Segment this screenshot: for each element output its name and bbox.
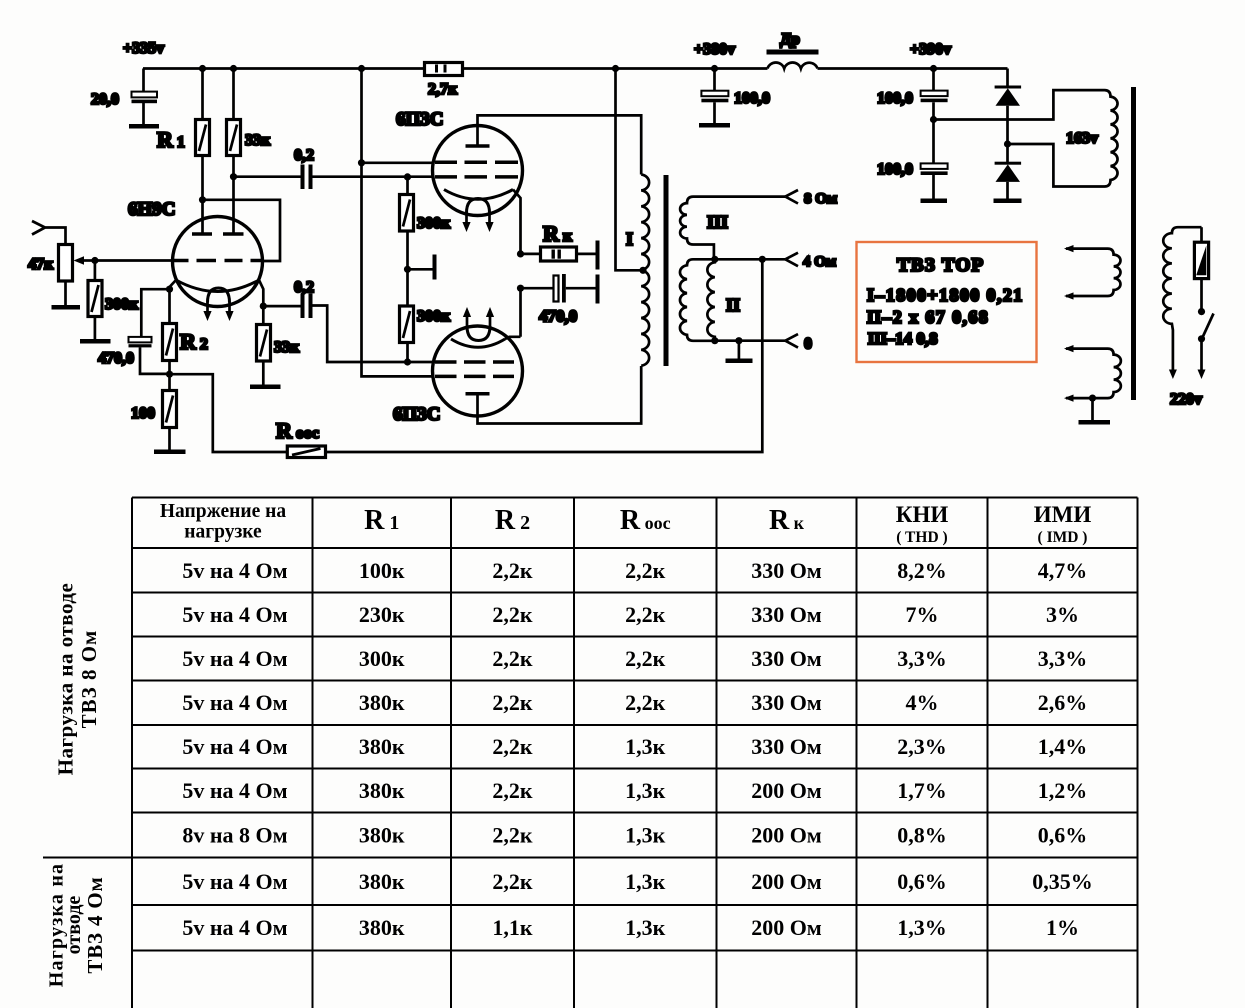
ground (under 100) <box>154 450 186 455</box>
svg-text:КНИ: КНИ <box>896 502 949 527</box>
svg-text:300к: 300к <box>417 215 451 232</box>
svg-text:1,1к: 1,1к <box>492 915 533 940</box>
svg-text:0,2: 0,2 <box>294 147 314 164</box>
svg-text:Напржение на: Напржение на <box>160 501 287 522</box>
svg-text:2,2к: 2,2к <box>625 602 666 627</box>
resistor R2 <box>163 289 208 374</box>
ground (right of Rк, bar) <box>596 241 600 270</box>
svg-text:+335v: +335v <box>123 40 164 57</box>
svg-text:5v на 4 Ом: 5v на 4 Ом <box>182 778 287 803</box>
ground (right of 470,0, bar) <box>596 275 600 304</box>
capacitor 100,0 (upper, +390v) <box>877 69 948 120</box>
capacitor 20,0 <box>91 69 157 125</box>
svg-text:33к: 33к <box>245 132 271 149</box>
resistor 300к (input) <box>88 261 139 340</box>
svg-text:I–1800+1800 0,21: I–1800+1800 0,21 <box>867 285 1024 305</box>
svg-text:5v на 4 Ом: 5v на 4 Ом <box>182 734 287 759</box>
svg-text:1,4%: 1,4% <box>1038 734 1088 759</box>
svg-text:33к: 33к <box>274 339 300 356</box>
svg-text:5v на 4 Ом: 5v на 4 Ом <box>182 558 287 583</box>
svg-text:+380v: +380v <box>694 41 735 58</box>
svg-text:0,6%: 0,6% <box>897 869 947 894</box>
svg-text:200 Ом: 200 Ом <box>751 869 822 894</box>
transformer secondary winding III <box>680 197 785 260</box>
ground (bias mid, bar) <box>433 255 437 280</box>
svg-text:2,7к: 2,7к <box>428 81 458 98</box>
svg-text:1,3к: 1,3к <box>625 869 666 894</box>
svg-text:100,0: 100,0 <box>734 90 770 107</box>
mains primary winding 220v <box>1163 227 1202 408</box>
table header row <box>160 501 1091 546</box>
tube V2 6П3С (upper) <box>396 109 523 232</box>
svg-text:380к: 380к <box>359 734 405 759</box>
resistor Rк (cathode bias) <box>521 221 597 261</box>
wire feedback bottom rail (right) <box>326 259 763 452</box>
svg-text:5v на 4 Ом: 5v на 4 Ом <box>182 602 287 627</box>
svg-text:R к: R к <box>543 221 573 246</box>
input terminal <box>32 221 66 245</box>
svg-text:2,2к: 2,2к <box>492 602 533 627</box>
svg-text:0,35%: 0,35% <box>1032 869 1093 894</box>
svg-text:470,0: 470,0 <box>539 307 577 326</box>
wire 4 Ом tap line <box>715 258 786 261</box>
svg-text:380к: 380к <box>359 778 405 803</box>
resistor 100 <box>131 374 177 449</box>
svg-text:R 1: R 1 <box>364 505 399 536</box>
node +335v supply rail <box>123 40 1008 69</box>
info box ТВЗ ТОР <box>857 242 1037 362</box>
capacitor 470,0 (cathode bypass) <box>521 274 597 326</box>
transformer secondary winding II (pair) <box>680 259 740 340</box>
terminal 0 <box>785 334 798 348</box>
svg-text:470,0: 470,0 <box>98 350 134 367</box>
svg-text:( THD ): ( THD ) <box>896 529 947 546</box>
svg-text:1,3к: 1,3к <box>625 823 666 848</box>
svg-text:I: I <box>626 229 633 249</box>
ground (under +390v caps) <box>921 199 948 204</box>
row group label ТВЗ 8 Ом (rotated) <box>54 583 102 776</box>
svg-text:Ш–14 0,8: Ш–14 0,8 <box>868 329 938 348</box>
tube V1 6Н9С double triode <box>128 199 263 321</box>
potentiometer 47к <box>28 245 95 306</box>
svg-text:380к: 380к <box>359 915 405 940</box>
resistor 300к (lower grid leak) <box>400 269 452 362</box>
svg-text:8v на 8 Ом: 8v на 8 Ом <box>182 823 287 848</box>
svg-text:ТВЗ 8 Ом: ТВЗ 8 Ом <box>77 630 101 729</box>
svg-text:380к: 380к <box>359 869 405 894</box>
svg-text:163v: 163v <box>1066 130 1098 147</box>
svg-text:нагрузке: нагрузке <box>184 522 262 543</box>
svg-text:2,2к: 2,2к <box>625 690 666 715</box>
svg-text:6П3С: 6П3С <box>396 109 444 130</box>
svg-text:100: 100 <box>131 405 155 422</box>
svg-text:300к: 300к <box>105 296 139 313</box>
svg-text:200 Ом: 200 Ом <box>751 915 822 940</box>
svg-text:Др: Др <box>780 31 800 48</box>
diode D2 <box>995 144 1022 199</box>
svg-text:2,2к: 2,2к <box>492 778 533 803</box>
svg-text:2,2к: 2,2к <box>492 646 533 671</box>
tube V3 6П3С (lower) <box>393 307 523 425</box>
svg-text:200 Ом: 200 Ом <box>751 778 822 803</box>
svg-text:5v на 4 Ом: 5v на 4 Ом <box>182 915 287 940</box>
svg-text:4 Ом: 4 Ом <box>803 254 836 270</box>
wire +380 branch to primary center tap <box>616 69 644 271</box>
svg-text:100к: 100к <box>359 558 405 583</box>
svg-text:2,2к: 2,2к <box>492 558 533 583</box>
core (output transformer) <box>664 175 669 366</box>
svg-text:1,2%: 1,2% <box>1038 778 1088 803</box>
resistor 300к (upper grid leak) <box>400 177 452 269</box>
resistor R1 <box>157 69 210 235</box>
svg-text:230к: 230к <box>359 602 405 627</box>
ground (under diodes) <box>994 199 1022 204</box>
svg-text:R 2: R 2 <box>180 329 208 354</box>
svg-text:2,3%: 2,3% <box>897 734 947 759</box>
power transformer HV winding 163v <box>934 90 1118 186</box>
svg-text:100,0: 100,0 <box>877 161 913 178</box>
svg-text:200 Ом: 200 Ом <box>751 823 822 848</box>
ground (under input 300к) <box>80 339 111 344</box>
ground (0 tap) <box>738 341 741 359</box>
svg-text:отводе: отводе <box>63 896 85 955</box>
svg-text:ИМИ: ИМИ <box>1034 502 1092 527</box>
svg-text:0,6%: 0,6% <box>1038 823 1088 848</box>
svg-text:R оос: R оос <box>620 505 671 536</box>
ground (under 20,0) <box>129 124 159 129</box>
wire 0 tap line <box>715 339 786 342</box>
svg-text:4,7%: 4,7% <box>1038 558 1088 583</box>
ground (under pot) <box>52 305 81 310</box>
wire V3 cathode <box>505 288 521 339</box>
wire wiper to grid <box>95 259 173 262</box>
svg-text:3%: 3% <box>1046 602 1079 627</box>
wire anode V2 to primary top <box>478 115 642 174</box>
svg-text:( IMD ): ( IMD ) <box>1038 529 1088 546</box>
svg-text:0: 0 <box>804 336 812 353</box>
svg-text:+390v: +390v <box>910 41 951 58</box>
ground (under +380v cap) <box>699 123 730 128</box>
svg-text:III: III <box>707 212 728 232</box>
svg-text:ТВЗ ТОР: ТВЗ ТОР <box>897 255 984 276</box>
svg-text:100,0: 100,0 <box>877 90 913 107</box>
svg-text:0,8%: 0,8% <box>897 823 947 848</box>
svg-text:220v: 220v <box>1170 391 1202 408</box>
svg-text:300к: 300к <box>359 646 405 671</box>
diode D1 <box>995 69 1022 145</box>
svg-text:R 2: R 2 <box>495 505 530 536</box>
svg-text:7%: 7% <box>906 602 939 627</box>
terminal 4 Ом <box>785 253 798 267</box>
svg-text:47к: 47к <box>28 256 54 273</box>
svg-text:330 Ом: 330 Ом <box>751 690 822 715</box>
wire screen supply <box>362 69 435 377</box>
resistor Rоос (feedback) <box>276 418 326 458</box>
svg-text:2,2к: 2,2к <box>492 734 533 759</box>
transformer primary winding I <box>626 175 649 366</box>
svg-text:Нагрузка на отводе: Нагрузка на отводе <box>54 583 78 776</box>
svg-text:2,2к: 2,2к <box>492 823 533 848</box>
svg-text:1,3%: 1,3% <box>897 915 947 940</box>
svg-text:2,2к: 2,2к <box>625 646 666 671</box>
svg-text:П–2 х 67 0,68: П–2 х 67 0,68 <box>867 307 989 327</box>
svg-text:300к: 300к <box>417 308 451 325</box>
svg-text:8 Ом: 8 Ом <box>804 191 837 207</box>
ground (under lower 33к) <box>250 385 281 390</box>
svg-text:8,2%: 8,2% <box>897 558 947 583</box>
svg-text:ТВЗ 4 Ом: ТВЗ 4 Ом <box>83 876 107 973</box>
capacitor 100,0 (+380v) <box>701 69 770 124</box>
terminal 8 Ом <box>785 190 798 204</box>
capacitor 0,2 (lower coupling) <box>294 279 434 362</box>
svg-text:1,7%: 1,7% <box>897 778 947 803</box>
svg-text:1%: 1% <box>1046 915 1079 940</box>
svg-text:2,6%: 2,6% <box>1038 690 1088 715</box>
svg-text:2,2к: 2,2к <box>492 690 533 715</box>
svg-text:5v на 4 Ом: 5v на 4 Ом <box>182 646 287 671</box>
svg-text:2,2к: 2,2к <box>492 869 533 894</box>
switch S1 <box>1198 279 1214 379</box>
heater winding A <box>1064 245 1121 300</box>
resistor 33к (lower, triode2 cathode) <box>257 306 301 384</box>
wire triode2 cathode to lower coupling <box>263 305 300 308</box>
fuse F1 <box>1194 227 1208 278</box>
core (power transformer) <box>1131 87 1136 400</box>
heater winding B <box>1064 345 1121 402</box>
svg-text:380к: 380к <box>359 823 405 848</box>
resistor 33к (upper, anode load of triode 2) <box>227 69 272 235</box>
svg-text:3,3%: 3,3% <box>897 646 947 671</box>
svg-text:5v на 4 Ом: 5v на 4 Ом <box>182 690 287 715</box>
svg-text:II: II <box>726 295 740 315</box>
svg-text:330 Ом: 330 Ом <box>751 646 822 671</box>
svg-text:R к: R к <box>769 505 805 536</box>
table data rows <box>182 558 1092 940</box>
svg-text:2,2к: 2,2к <box>625 558 666 583</box>
svg-text:20,0: 20,0 <box>91 91 119 108</box>
svg-text:1,3к: 1,3к <box>625 778 666 803</box>
svg-text:380к: 380к <box>359 690 405 715</box>
svg-text:5v на 4 Ом: 5v на 4 Ом <box>182 869 287 894</box>
wire plate1 to grid2 <box>203 200 281 261</box>
results table grid <box>43 498 1138 1008</box>
wire V2 cathode <box>513 190 521 254</box>
wire anode V3 to primary bottom <box>478 366 642 424</box>
capacitor 100,0 (lower) <box>877 120 948 199</box>
svg-text:R оос: R оос <box>276 418 319 443</box>
svg-text:3,3%: 3,3% <box>1038 646 1088 671</box>
ground (heater winding B tap) <box>1091 398 1094 420</box>
row group label ТВЗ 4 Ом (rotated) <box>46 863 108 987</box>
wire bias mid node <box>408 268 433 271</box>
svg-text:6П3С: 6П3С <box>393 404 441 425</box>
svg-text:1,3к: 1,3к <box>625 915 666 940</box>
svg-text:330 Ом: 330 Ом <box>751 602 822 627</box>
wire feedback bottom rail (left) <box>170 374 288 452</box>
svg-text:R 1: R 1 <box>157 127 185 152</box>
capacitor 470,0 (cathode bypass, left) <box>98 337 170 374</box>
svg-text:4%: 4% <box>906 690 939 715</box>
svg-text:6Н9С: 6Н9С <box>128 199 176 220</box>
resistor 2,7к (series in rail) <box>425 63 463 99</box>
svg-text:330 Ом: 330 Ом <box>751 558 822 583</box>
svg-text:0,2: 0,2 <box>294 279 314 296</box>
svg-text:330 Ом: 330 Ом <box>751 734 822 759</box>
wire cathode1 node <box>141 289 169 337</box>
choke Др <box>767 31 819 69</box>
svg-text:1,3к: 1,3к <box>625 734 666 759</box>
capacitor 0,2 (upper coupling) <box>234 147 434 189</box>
